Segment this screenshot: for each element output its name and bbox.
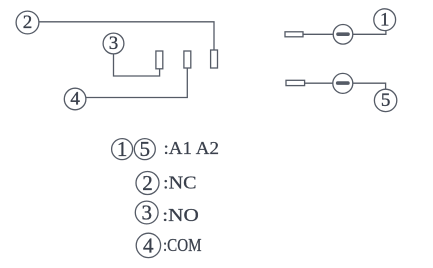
contact NC (top right rectangle) (211, 50, 218, 68)
svg-text:4: 4 (143, 233, 154, 257)
svg-text:3: 3 (141, 201, 152, 225)
svg-text:5: 5 (140, 137, 151, 161)
node 1 (terminal circle) (374, 9, 396, 31)
wire lug A1 to coil (303, 33, 334, 35)
svg-text:4: 4 (70, 89, 80, 110)
wire lug A2 to coil (305, 82, 333, 84)
coil A1 (circle with bar) (333, 25, 353, 45)
legend circle 3 (135, 201, 158, 225)
svg-text::NC: :NC (163, 172, 197, 192)
svg-text::COM: :COM (163, 235, 202, 255)
svg-text:1: 1 (117, 137, 128, 161)
svg-text::A1 A2: :A1 A2 (164, 138, 220, 158)
svg-text:3: 3 (109, 33, 119, 54)
wire from node 3 to NO contact (114, 54, 160, 76)
node 2 (terminal circle) (16, 11, 39, 34)
svg-text:2: 2 (142, 171, 153, 195)
contact COM (middle rectangle) (184, 51, 191, 68)
coil terminal lug A2 (286, 80, 305, 85)
legend circle 4 (136, 233, 160, 257)
coil terminal lug A1 (285, 32, 303, 37)
legend circle 2 (136, 171, 159, 195)
svg-text:1: 1 (380, 9, 390, 30)
wire coil to node 1 (353, 30, 386, 34)
svg-text::NO: :NO (162, 205, 199, 225)
wire coil to node 5 (353, 83, 386, 89)
svg-text:5: 5 (381, 90, 391, 111)
contact NO (left rectangle) (156, 51, 163, 69)
wire from COM contact to node 4 (86, 68, 187, 98)
legend circle 1 (112, 137, 133, 161)
node 4 (terminal circle) (64, 88, 86, 110)
legend circle 5 (134, 137, 155, 161)
node 3 (terminal circle) (103, 33, 124, 54)
node 5 (terminal circle) (374, 89, 396, 111)
wire from node 2 to NC contact (39, 22, 214, 50)
svg-text:2: 2 (23, 12, 33, 33)
coil A2 (circle with bar) (333, 73, 353, 93)
